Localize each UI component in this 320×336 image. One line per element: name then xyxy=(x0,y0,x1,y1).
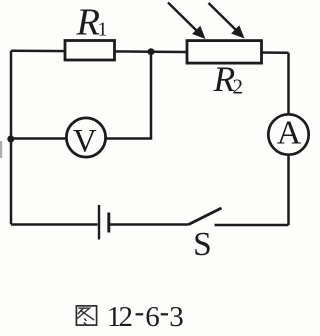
svg-text:2: 2 xyxy=(119,301,134,333)
svg-text:S: S xyxy=(193,226,212,263)
svg-text:6: 6 xyxy=(145,301,160,333)
svg-text:1: 1 xyxy=(98,19,108,41)
svg-text:V: V xyxy=(73,124,97,160)
svg-text:2: 2 xyxy=(233,75,244,99)
svg-text:R: R xyxy=(76,2,101,44)
svg-text:3: 3 xyxy=(169,301,184,333)
svg-text:A: A xyxy=(277,115,302,152)
